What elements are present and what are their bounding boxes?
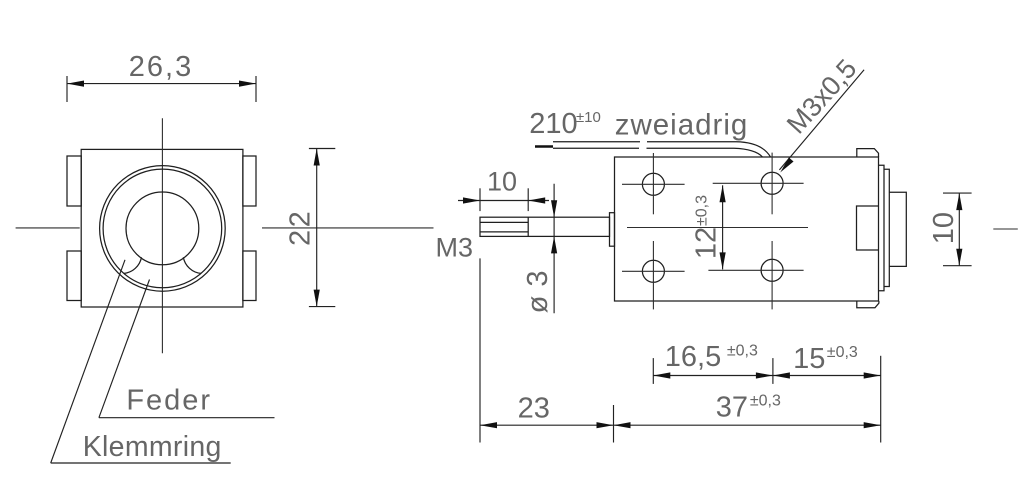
extension line left bbox=[66, 76, 68, 102]
svg-text:Feder: Feder bbox=[126, 385, 212, 417]
body outline front bbox=[81, 149, 243, 307]
wire stripped end bbox=[535, 145, 553, 148]
thread root lines bbox=[480, 221, 528, 223]
svg-text:ø3: ø3 bbox=[522, 261, 554, 313]
klemmring hook left bbox=[124, 257, 142, 273]
svg-text:16,5: 16,5 bbox=[665, 341, 721, 373]
wire top line bbox=[553, 142, 771, 157]
dim 12 +-0,3 bbox=[722, 185, 724, 269]
dim 10 shaft bbox=[479, 188, 481, 211]
tab right lower bbox=[243, 251, 256, 301]
wire bottom line bbox=[553, 148, 763, 157]
coil outer circle bbox=[100, 166, 226, 292]
svg-text:10: 10 bbox=[487, 166, 517, 196]
leader M3x0,5 bbox=[779, 70, 864, 170]
end plate 1 bbox=[879, 165, 885, 290]
hole top-right bbox=[761, 172, 783, 194]
side tab top bbox=[857, 149, 879, 157]
svg-text:15: 15 bbox=[793, 343, 825, 375]
end plate 2 bbox=[884, 169, 889, 286]
svg-text:210: 210 bbox=[529, 108, 577, 140]
svg-text:M3: M3 bbox=[436, 233, 474, 263]
bore circle bbox=[126, 192, 199, 265]
dim line 26,3 bbox=[67, 83, 256, 85]
thread end line bbox=[527, 217, 529, 236]
svg-text:±0,3: ±0,3 bbox=[694, 195, 711, 226]
svg-text:23: 23 bbox=[518, 393, 550, 425]
tab left upper bbox=[67, 156, 81, 206]
svg-text:±0,3: ±0,3 bbox=[727, 343, 758, 360]
horizontal centerline middle bbox=[262, 227, 434, 229]
side body outline bbox=[615, 157, 879, 301]
svg-text:±0,3: ±0,3 bbox=[750, 392, 781, 409]
hole top-left bbox=[642, 173, 664, 195]
extension line right bbox=[255, 76, 257, 102]
horizontal centerline left bbox=[16, 227, 80, 229]
leader to Klemmring bbox=[51, 260, 125, 463]
svg-text:zweiadrig: zweiadrig bbox=[615, 108, 749, 141]
klemmring hook right bbox=[183, 257, 201, 273]
dim row 16,5 / 15 bbox=[652, 358, 654, 384]
hole bottom-right bbox=[761, 259, 783, 281]
tab right upper bbox=[243, 156, 256, 206]
svg-text:Klemmring: Klemmring bbox=[83, 431, 222, 463]
inner rect at body right bbox=[857, 206, 879, 250]
svg-text:±10: ±10 bbox=[576, 109, 601, 126]
svg-text:26,3: 26,3 bbox=[129, 51, 193, 83]
svg-text:10: 10 bbox=[928, 212, 960, 244]
svg-text:22: 22 bbox=[285, 209, 317, 246]
svg-text:±0,3: ±0,3 bbox=[827, 344, 858, 361]
hole bottom-left bbox=[642, 260, 664, 282]
leader to Feder bbox=[99, 280, 150, 418]
vertical centerline bbox=[161, 118, 163, 353]
dim 22 vertical bbox=[316, 149, 318, 307]
svg-text:37: 37 bbox=[716, 391, 748, 423]
dim 10 right bbox=[943, 192, 972, 194]
dim row 23 / 37 bbox=[613, 405, 615, 443]
plunger shaft bbox=[480, 217, 610, 236]
coil inner ring circle bbox=[103, 169, 222, 288]
side centerline bbox=[627, 227, 808, 229]
collar bbox=[610, 213, 615, 247]
far right centerline segment bbox=[993, 228, 1018, 230]
tab left lower bbox=[67, 251, 81, 301]
side tab bottom bbox=[857, 301, 879, 308]
svg-text:12: 12 bbox=[690, 227, 722, 259]
dim diameter 3 bbox=[553, 184, 555, 314]
end block bbox=[889, 192, 906, 266]
